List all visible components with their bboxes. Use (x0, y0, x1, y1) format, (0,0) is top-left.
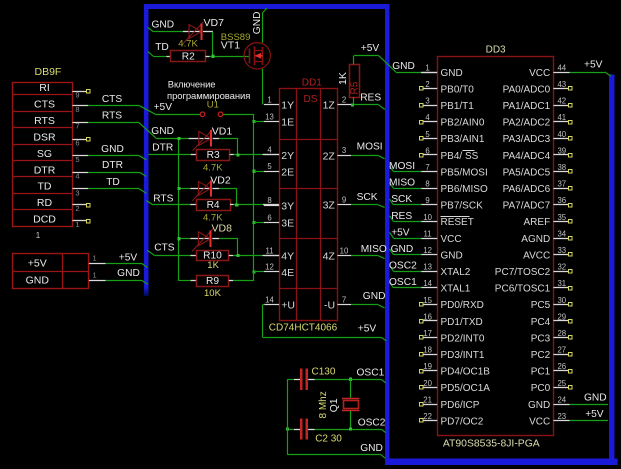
svg-text:9: 9 (425, 196, 429, 205)
svg-text:10K: 10K (204, 288, 222, 299)
svg-text:PC1: PC1 (531, 367, 551, 378)
svg-text:DTR: DTR (34, 164, 56, 176)
svg-text:2: 2 (425, 80, 429, 89)
svg-text:AGND: AGND (521, 234, 550, 245)
svg-text:2Y: 2Y (281, 150, 294, 162)
svg-text:OSC2: OSC2 (358, 417, 386, 428)
svg-text:5: 5 (425, 130, 430, 139)
svg-text:PC5: PC5 (531, 300, 551, 311)
highlight border left segment (144, 4, 149, 296)
svg-text:CD74HCT4066: CD74HCT4066 (269, 322, 338, 333)
switch U1 (155, 112, 254, 117)
label 10K of R9 (204, 288, 222, 299)
resistor R4 (197, 200, 231, 211)
svg-text:1E: 1E (281, 117, 294, 129)
svg-text:7: 7 (342, 295, 346, 304)
svg-text:PB5/MOSI: PB5/MOSI (441, 167, 488, 178)
wire OSC2 (286, 417, 386, 432)
wire RES into DD3 pin 10 (390, 211, 422, 222)
svg-text:VD8: VD8 (212, 223, 233, 235)
svg-text:DSR: DSR (33, 132, 56, 144)
wire RES from DD1 pin2 (351, 93, 385, 110)
IC DD1 body (279, 89, 337, 321)
svg-text:34: 34 (557, 229, 566, 238)
svg-text:GND: GND (101, 144, 124, 155)
wire MISO into DD3 pin 8 (389, 178, 421, 189)
svg-text:4.7K: 4.7K (178, 39, 198, 50)
IC DD1 right pin names (323, 100, 336, 312)
svg-text:3Z: 3Z (323, 200, 336, 212)
svg-text:TD: TD (106, 177, 120, 188)
svg-text:DTR: DTR (102, 160, 123, 171)
svg-text:RI: RI (39, 82, 50, 94)
svg-text:Включение: Включение (168, 78, 216, 89)
svg-text:R9: R9 (206, 276, 219, 287)
node GND vertical label (252, 12, 263, 35)
svg-text:PD0/RXD: PD0/RXD (441, 300, 484, 311)
svg-text:PA7/ADC7: PA7/ADC7 (503, 201, 551, 212)
svg-text:12: 12 (423, 246, 432, 255)
svg-text:OSC1: OSC1 (389, 277, 417, 288)
node TD (155, 42, 169, 53)
svg-text:PB7/SCK: PB7/SCK (441, 201, 484, 212)
wire MISO from DD1 pin10 (4Z) (351, 244, 387, 259)
label VT1 (221, 40, 240, 52)
wire TD from DB9F pin3 (88, 177, 146, 193)
svg-text:PA2/ADC2: PA2/ADC2 (503, 118, 551, 129)
svg-text:+5V: +5V (584, 60, 603, 71)
svg-text:PA6/ADC6: PA6/ADC6 (503, 184, 551, 195)
label Q1 (328, 398, 340, 412)
svg-text:PC7/TOSC2: PC7/TOSC2 (495, 267, 551, 278)
svg-text:4: 4 (267, 146, 272, 155)
node +5V (switch input) (154, 102, 173, 113)
label 4.7K of R2 (178, 39, 198, 50)
svg-text:DD1: DD1 (302, 77, 322, 88)
svg-text:DCD: DCD (33, 213, 56, 225)
svg-text:VD1: VD1 (212, 125, 233, 137)
svg-text:+5V: +5V (585, 409, 604, 420)
wire R9 to enable net (pin12 4E) (229, 272, 254, 281)
wire MOSI from DD1 pin3 (2Z) (351, 141, 385, 159)
svg-text:AVCC: AVCC (523, 250, 550, 261)
connector DB9F label (35, 66, 62, 78)
wire OSC1 (315, 367, 386, 383)
wire DD1 pin14 +U to +5V bottom (263, 305, 387, 341)
svg-text:+5V: +5V (358, 323, 377, 334)
label U1 (207, 100, 219, 111)
label C130 (312, 367, 336, 378)
svg-text:2Z: 2Z (323, 150, 336, 162)
svg-text:TD: TD (155, 42, 169, 53)
svg-text:PB4/ SS: PB4/ SS (441, 151, 479, 162)
capacitor C2 (287, 418, 314, 439)
svg-text:R3: R3 (207, 150, 220, 161)
label 4.7K of R3 (203, 163, 223, 174)
svg-text:21: 21 (423, 395, 432, 404)
highlight border right segment (609, 75, 614, 466)
wire R3 to DD1 pin4 (2Y) (230, 153, 280, 156)
svg-text:MISO: MISO (389, 178, 415, 189)
svg-text:VT1: VT1 (221, 40, 240, 52)
svg-text:1: 1 (93, 271, 97, 280)
svg-text:1: 1 (36, 230, 41, 240)
svg-text:+5V: +5V (119, 252, 138, 263)
svg-text:PA0/ADC0: PA0/ADC0 (503, 84, 551, 95)
svg-text:PD2/INT0: PD2/INT0 (441, 333, 485, 344)
svg-text:14: 14 (265, 295, 274, 304)
label CD74HCT4066 (269, 322, 338, 333)
svg-text:30: 30 (557, 296, 566, 305)
svg-text:3: 3 (425, 97, 429, 106)
svg-text:GND: GND (363, 291, 386, 302)
IC DD3 right pin names (495, 68, 551, 428)
svg-text:27: 27 (557, 346, 566, 355)
svg-text:12: 12 (265, 263, 274, 272)
wire +5V into DD3 pin 11 (390, 227, 422, 238)
connector DB9F pins (36, 90, 90, 241)
svg-text:38: 38 (557, 163, 566, 172)
svg-text:5: 5 (267, 162, 272, 171)
IC DD3 left pin names (441, 68, 491, 428)
diode VD1 (193, 125, 233, 150)
svg-text:3Y: 3Y (281, 200, 294, 212)
svg-text:+5V: +5V (28, 258, 47, 270)
wire SCK from DD1 pin9 (3Z) (351, 192, 385, 208)
capacitor C1 (C130) (287, 369, 314, 390)
svg-text:VD2: VD2 (210, 175, 231, 187)
wire R5 bottom to RES node (353, 97, 355, 105)
svg-text:PB2/AIN0: PB2/AIN0 (441, 118, 485, 129)
diode VD7 (183, 17, 224, 44)
wire GND at DD3 pin24 (570, 392, 608, 404)
wire CTS from DB9F pin8 (88, 94, 155, 115)
svg-text:SCK: SCK (391, 194, 412, 205)
svg-text:6: 6 (267, 213, 271, 222)
node GND top-left (152, 19, 175, 30)
svg-text:PA4/ADC4: PA4/ADC4 (503, 151, 551, 162)
wire VD1 cathode down to R3 node (213, 138, 238, 155)
label 1K of R5 (337, 72, 349, 85)
svg-text:VCC: VCC (441, 234, 462, 245)
connector +5V/GND body (13, 254, 89, 290)
svg-text:4E: 4E (281, 267, 294, 279)
svg-text:PA1/ADC1: PA1/ADC1 (503, 101, 551, 112)
svg-text:42: 42 (557, 97, 566, 106)
svg-text:CTS: CTS (34, 99, 55, 111)
transistor VT1 (244, 43, 270, 69)
svg-text:GND: GND (360, 443, 383, 454)
svg-text:28: 28 (557, 329, 566, 338)
label AT90S8535-8JI-PGA (443, 439, 540, 450)
svg-text:1Z: 1Z (323, 100, 336, 112)
wire DTR from DB9F pin4 (88, 160, 146, 176)
svg-text:1K: 1K (207, 260, 219, 271)
svg-text:PB1/T1: PB1/T1 (441, 101, 475, 112)
svg-text:8: 8 (267, 196, 271, 205)
svg-text:23: 23 (557, 412, 566, 421)
IC DD1 left pin names (281, 100, 295, 312)
resistor R3 (197, 150, 230, 161)
diode VD8 (192, 223, 232, 251)
svg-text:PC6/TOSC1: PC6/TOSC1 (495, 284, 551, 295)
svg-text:GND: GND (441, 68, 463, 79)
connector +5V/GND pins (89, 254, 106, 281)
svg-text:GND: GND (26, 275, 50, 287)
wire RTS to R4 (146, 201, 196, 205)
svg-text:GND: GND (584, 392, 607, 403)
svg-text:TD: TD (38, 181, 52, 193)
svg-text:Q1: Q1 (328, 398, 340, 412)
highlight border bottom segment (385, 459, 618, 466)
svg-text:1: 1 (267, 95, 271, 104)
IC DD1 right pin stubs and numbers (337, 96, 351, 305)
wire GND clamp (VD7 anode) (148, 28, 189, 32)
svg-text:MOSI: MOSI (357, 141, 383, 152)
svg-text:GND: GND (117, 268, 140, 279)
svg-text:17: 17 (423, 329, 432, 338)
svg-text:GND: GND (441, 250, 463, 261)
svg-text:+U: +U (281, 300, 295, 312)
svg-text:C130: C130 (312, 367, 336, 378)
op-amp/analog switch DD1 label (302, 77, 322, 88)
svg-text:AT90S8535-8JI-PGA: AT90S8535-8JI-PGA (443, 439, 540, 450)
svg-text:9: 9 (75, 91, 79, 100)
wire VD8 cathode down to R10 node (212, 239, 238, 256)
wire DTR to R3 (148, 154, 196, 156)
svg-text:11: 11 (424, 229, 432, 238)
svg-text:OSC2: OSC2 (389, 261, 417, 272)
annotation Vklyuchenie programmirovaniya (167, 78, 250, 102)
node CTS (bottom) (154, 243, 175, 254)
svg-text:MISO: MISO (361, 244, 387, 255)
svg-text:XTAL2: XTAL2 (441, 267, 471, 278)
svg-text:6: 6 (425, 146, 429, 155)
svg-text:24: 24 (557, 395, 566, 404)
wire GND from aux connector (106, 268, 148, 284)
crystal Q1 (342, 379, 360, 429)
wire R2 to VT1 gate (206, 55, 250, 58)
svg-text:9: 9 (342, 196, 346, 205)
svg-text:MOSI: MOSI (389, 161, 415, 172)
svg-text:44: 44 (557, 63, 566, 72)
svg-text:PD1/TXD: PD1/TXD (441, 317, 483, 328)
highlight border middle vertical segment (385, 4, 390, 465)
svg-text:R2: R2 (182, 51, 195, 62)
svg-text:10: 10 (423, 213, 432, 222)
wire CTS to R10 (147, 250, 196, 255)
wire VD2 cathode down to R4 node (212, 189, 236, 205)
svg-text:VD7: VD7 (204, 17, 225, 29)
svg-text:40: 40 (557, 130, 566, 139)
svg-text:VCC: VCC (529, 416, 550, 427)
svg-text:XTAL1: XTAL1 (441, 284, 471, 295)
svg-text:7: 7 (75, 122, 79, 131)
svg-text:OSC1: OSC1 (357, 367, 385, 378)
svg-text:18: 18 (423, 346, 432, 355)
svg-text:PC4: PC4 (531, 317, 551, 328)
svg-text:1Y: 1Y (281, 100, 294, 112)
svg-text:37: 37 (557, 180, 566, 189)
svg-text:13: 13 (265, 112, 274, 121)
svg-text:PD7/OC2: PD7/OC2 (441, 416, 484, 427)
svg-text:R5: R5 (350, 81, 361, 94)
IC DD3 body (438, 57, 554, 436)
svg-text:DS: DS (304, 94, 318, 105)
label 1K of R10 (207, 260, 219, 271)
svg-text:14: 14 (423, 279, 432, 288)
svg-text:PD6/ICP: PD6/ICP (441, 400, 480, 411)
node RTS (153, 193, 173, 204)
wire R4 to DD1 pin8 (3Y) (230, 203, 279, 206)
resistor R2 (171, 51, 206, 63)
svg-text:10: 10 (340, 246, 349, 255)
svg-text:DD3: DD3 (486, 45, 506, 56)
svg-text:DB9F: DB9F (35, 66, 62, 78)
svg-text:4: 4 (75, 172, 79, 181)
svg-text:13: 13 (423, 263, 432, 272)
svg-text:GND: GND (152, 19, 175, 30)
svg-text:GND: GND (528, 400, 550, 411)
node DTR (152, 142, 173, 153)
svg-text:33: 33 (557, 246, 566, 255)
svg-text:7: 7 (425, 163, 429, 172)
wire GND rail of crystal block (287, 379, 385, 458)
wire enable net vertical (to 1E,2E,3E,4E) (252, 114, 264, 273)
wire R10 to DD1 pin11 (4Y) (229, 254, 279, 257)
wire VT1 source to DD1 pin1 (262, 69, 264, 105)
node GND at DD3 pin1 (392, 61, 415, 72)
svg-text:1: 1 (93, 254, 97, 263)
svg-text:PB0/T0: PB0/T0 (441, 84, 475, 95)
IC DD1 left pin stubs and numbers (264, 95, 279, 304)
wire VD7 cathode to gate node (203, 32, 213, 57)
svg-text:3: 3 (75, 188, 79, 197)
svg-text:RES: RES (391, 211, 412, 222)
svg-text:GND: GND (151, 126, 174, 137)
svg-text:4Z: 4Z (323, 251, 336, 263)
svg-text:DTR: DTR (152, 142, 173, 153)
svg-text:C2 30: C2 30 (315, 433, 342, 444)
svg-text:GND: GND (252, 12, 263, 35)
svg-text:RTS: RTS (153, 193, 173, 204)
svg-text:6: 6 (75, 139, 79, 148)
wire GND clamp rail (156, 137, 198, 281)
svg-text:8: 8 (425, 180, 429, 189)
wire OSC2 into DD3 pin 13 (389, 261, 421, 272)
svg-text:11: 11 (265, 246, 273, 255)
svg-text:PC0: PC0 (531, 383, 551, 394)
svg-text:PA5/ADC5: PA5/ADC5 (503, 167, 551, 178)
resistor R9 (197, 276, 229, 287)
label 8 Mhz (318, 391, 329, 418)
svg-text:1: 1 (425, 63, 429, 72)
svg-text:3: 3 (342, 146, 346, 155)
svg-text:PC3: PC3 (531, 333, 551, 344)
svg-text:29: 29 (557, 312, 566, 321)
svg-text:41: 41 (557, 113, 566, 122)
connector DB9F body (13, 82, 73, 226)
svg-text:43: 43 (557, 80, 566, 89)
svg-text:4Y: 4Y (281, 251, 294, 263)
svg-text:25: 25 (557, 379, 566, 388)
label 4.7K of R4 (203, 212, 223, 223)
svg-text:2: 2 (342, 96, 346, 105)
IC DD3 left pin stubs and numbers (420, 63, 438, 422)
svg-text:U1: U1 (207, 100, 219, 111)
svg-text:4.7K: 4.7K (203, 163, 223, 174)
wire RTS from DB9F pin7 (88, 110, 156, 138)
svg-text:+5V: +5V (391, 227, 410, 238)
svg-text:3E: 3E (281, 218, 294, 230)
svg-text:R4: R4 (207, 200, 220, 211)
svg-text:GND: GND (392, 61, 415, 72)
svg-text:35: 35 (557, 213, 566, 222)
wire MOSI into DD3 pin 7 (389, 161, 421, 172)
svg-text:GND: GND (391, 244, 414, 255)
IC DD3 right pin stubs and numbers (553, 63, 572, 421)
svg-text:RES: RES (360, 93, 381, 104)
wire +5V at DD3 pin23 (570, 409, 608, 421)
svg-text:CTS: CTS (102, 94, 123, 105)
svg-text:+5V: +5V (154, 102, 173, 113)
svg-text:2E: 2E (281, 166, 294, 178)
svg-text:4: 4 (425, 113, 430, 122)
svg-text:1K: 1K (337, 72, 349, 85)
svg-text:5: 5 (75, 155, 79, 164)
svg-text:RESET: RESET (441, 217, 474, 228)
svg-text:+5V: +5V (361, 43, 380, 54)
wire SCK into DD3 pin 9 (390, 194, 422, 205)
label BSS89 (221, 32, 251, 43)
svg-text:CTS: CTS (154, 243, 175, 254)
wire GND into DD3 pin 12 (390, 244, 422, 255)
svg-text:PD4/OC1B: PD4/OC1B (441, 367, 491, 378)
svg-text:36: 36 (557, 196, 566, 205)
svg-text:26: 26 (557, 362, 566, 371)
svg-text:VCC: VCC (529, 68, 550, 79)
svg-text:PB6/MISO: PB6/MISO (441, 184, 488, 195)
svg-text:31: 31 (557, 279, 566, 288)
svg-text:SG: SG (37, 148, 52, 160)
diode VD2 (192, 175, 231, 201)
svg-text:22: 22 (423, 412, 432, 421)
wire TD to R2 (148, 52, 171, 57)
wire +5V at DD3 pin44 (570, 60, 611, 76)
svg-text:PD3/INT1: PD3/INT1 (441, 350, 485, 361)
wire R5 top to +5V / DD3 pin1 (354, 43, 438, 73)
wire GND from DB9F pin5 (88, 144, 146, 160)
svg-text:16: 16 (423, 312, 432, 321)
svg-text:RTS: RTS (34, 115, 55, 127)
svg-text:39: 39 (557, 146, 566, 155)
svg-text:RD: RD (37, 197, 53, 209)
wire VT1 drain to GND (vertical, net label GND) (263, 8, 267, 43)
svg-text:AREF: AREF (524, 217, 551, 228)
node GND (clamp rail) (151, 126, 174, 137)
svg-text:PB3/AIN1: PB3/AIN1 (441, 134, 485, 145)
svg-text:19: 19 (423, 362, 432, 371)
svg-text:15: 15 (423, 296, 432, 305)
wire OSC1 into DD3 pin 14 (389, 277, 421, 288)
svg-text:PC2: PC2 (531, 350, 551, 361)
label C2 30 (315, 433, 342, 444)
resistor R5 (vertical) (350, 65, 361, 98)
wire GND from DD1 pin7 (-U) (351, 291, 385, 308)
svg-text:PD5/OC1A: PD5/OC1A (441, 383, 491, 394)
svg-text:8: 8 (75, 105, 79, 114)
highlight border top segment (144, 4, 390, 9)
